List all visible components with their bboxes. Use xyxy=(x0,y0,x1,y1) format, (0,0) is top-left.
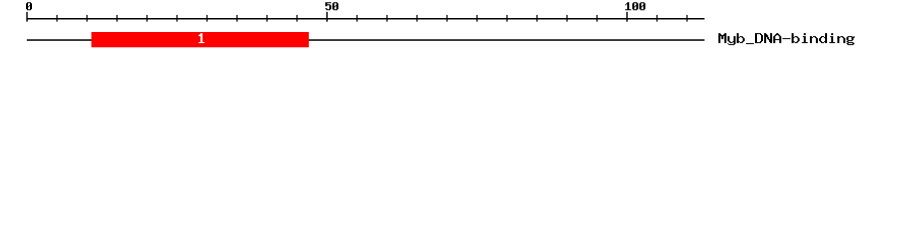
ruler label 100 xyxy=(625,2,645,10)
ruler minor ticks xyxy=(56,15,687,22)
domain box Myb_DNA-binding (red) xyxy=(91,32,308,47)
domain name label Myb_DNA-binding xyxy=(718,33,854,45)
ruler line xyxy=(27,18,705,20)
major tick 0 xyxy=(26,12,27,22)
protein backbone line xyxy=(27,39,705,41)
ruler label 0 xyxy=(26,2,32,10)
major tick 100 xyxy=(626,12,627,22)
major tick 50 xyxy=(326,12,327,22)
domain number 1 xyxy=(199,33,205,43)
ruler label 50 xyxy=(325,2,338,10)
